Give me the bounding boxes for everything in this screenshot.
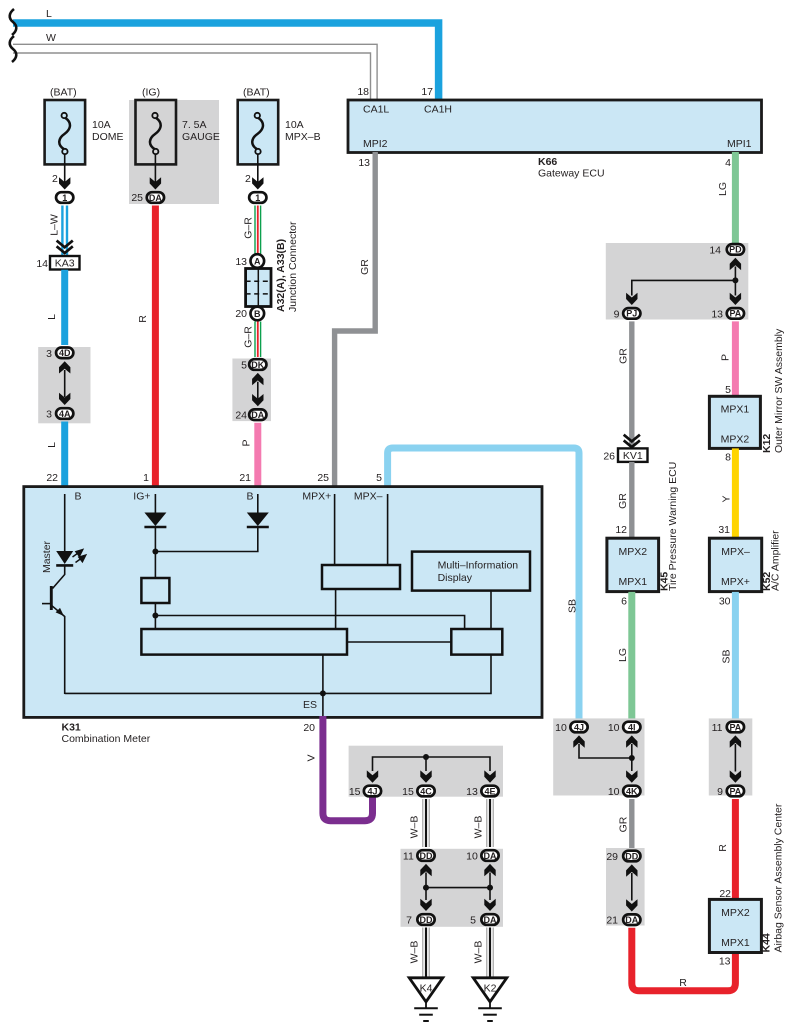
- wire LG K45 pin 6 to 4I: [617, 592, 632, 719]
- arrow pair wire DK-DA: [252, 373, 263, 406]
- svg-text:20: 20: [303, 722, 315, 734]
- connector oval DA pin 5: [470, 914, 498, 926]
- svg-text:PD: PD: [729, 245, 742, 255]
- svg-text:14: 14: [709, 244, 721, 256]
- svg-text:MPX1: MPX1: [619, 576, 648, 588]
- svg-text:P: P: [241, 439, 253, 446]
- label K31 Combination Meter: [62, 722, 151, 746]
- svg-text:13: 13: [711, 308, 723, 320]
- connector oval 1 (MPX-B): [249, 192, 266, 203]
- combination meter K31 box: [24, 487, 542, 718]
- label L: [46, 8, 52, 20]
- svg-text:LG: LG: [717, 182, 729, 196]
- pin 5 label (K31 MPX-): [376, 472, 382, 484]
- cross wire DD-DA: [426, 887, 490, 889]
- svg-text:A32(A), A33(B): A32(A), A33(B): [275, 239, 287, 312]
- svg-text:B: B: [246, 490, 253, 502]
- svg-text:W–B: W–B: [473, 816, 485, 839]
- svg-text:R: R: [679, 977, 687, 989]
- svg-text:MPX–: MPX–: [721, 546, 750, 558]
- svg-text:SB: SB: [721, 649, 733, 663]
- wire L-W (blue/white stripe) oval1 to KA3: [49, 206, 65, 256]
- wire R fuse DA to K31 pin 1: [137, 206, 155, 488]
- svg-text:DOME: DOME: [92, 131, 124, 143]
- svg-text:W–B: W–B: [473, 941, 485, 964]
- svg-text:GR: GR: [618, 348, 630, 364]
- fuse F2 7.5A GAUGE: [136, 87, 220, 165]
- arrow up into PD and branch wire: [632, 258, 741, 296]
- svg-text:P: P: [720, 354, 732, 361]
- wire GR PJ to KV1: [618, 321, 632, 447]
- connector oval DD pin 11: [403, 850, 435, 862]
- svg-text:5: 5: [376, 472, 382, 484]
- svg-text:17: 17: [421, 86, 433, 98]
- svg-text:GAUGE: GAUGE: [182, 131, 220, 143]
- connector oval PD pin 14: [709, 244, 744, 256]
- svg-text:4J: 4J: [367, 786, 377, 796]
- label K66 Gateway ECU: [538, 156, 605, 180]
- squiggle break mark bottom: [10, 36, 17, 62]
- svg-text:30: 30: [719, 596, 731, 608]
- wire V from K31 pin 20 to 4J: [306, 716, 373, 821]
- wire L (blue CAN line from left edge to CA1H): [13, 23, 439, 100]
- svg-text:10A: 10A: [92, 119, 111, 131]
- svg-text:K66: K66: [538, 156, 557, 168]
- svg-text:(BAT): (BAT): [243, 87, 270, 99]
- svg-text:PJ: PJ: [626, 309, 637, 319]
- fuse F3 10A MPX-B: [238, 87, 321, 165]
- connector oval DA pin 21: [606, 914, 640, 926]
- svg-text:MPX–: MPX–: [354, 490, 383, 502]
- connector oval PA pin 11: [712, 722, 744, 734]
- wire Y K12 pin 8 to K52 pin 31: [718, 448, 735, 538]
- ground K4: [409, 978, 443, 1021]
- connector oval 4E pin 13: [466, 786, 499, 798]
- ground K2: [473, 978, 507, 1021]
- svg-text:15: 15: [402, 786, 414, 798]
- pin 18 label: [357, 86, 369, 98]
- junction connector A32(A) A33(B) grid: [246, 269, 271, 307]
- relay block KV1 pin 26: [603, 448, 647, 462]
- svg-text:(BAT): (BAT): [50, 87, 77, 99]
- arrow up into 4J and branch wire: [573, 735, 632, 758]
- wire W-B 4C to DD: [409, 799, 430, 847]
- svg-text:1: 1: [62, 193, 67, 203]
- transistor Q1: [42, 586, 65, 694]
- svg-text:L: L: [46, 314, 58, 320]
- svg-text:4D: 4D: [59, 348, 71, 358]
- wire GR KV1 to K45 pin 12: [615, 462, 631, 538]
- wire W-B 4E to DA: [473, 799, 494, 847]
- shade box PD/PJ/PA: [606, 243, 749, 320]
- svg-text:21: 21: [606, 915, 618, 927]
- pin 13 label K44: [719, 956, 731, 968]
- wire P PA to K12 pin 5: [720, 321, 736, 396]
- svg-text:IG+: IG+: [133, 490, 150, 502]
- A/C amplifier K52 box: [709, 538, 761, 591]
- pin 20 label: [303, 722, 315, 734]
- svg-text:PA: PA: [729, 722, 741, 732]
- svg-text:DA: DA: [251, 410, 264, 420]
- label K52 A/C Amplifier: [761, 530, 782, 591]
- squiggle break mark top: [10, 9, 17, 35]
- svg-text:15: 15: [349, 786, 361, 798]
- double chevron into KA3: [57, 241, 73, 253]
- svg-text:20: 20: [235, 308, 247, 320]
- svg-text:MPI1: MPI1: [727, 138, 752, 150]
- CPU long block: [141, 629, 347, 655]
- label K12 Outer Mirror SW Assembly: [761, 328, 785, 453]
- svg-text:10: 10: [466, 851, 478, 863]
- svg-text:Outer Mirror SW Assembly: Outer Mirror SW Assembly: [773, 328, 785, 453]
- resistor block R1: [141, 552, 169, 630]
- label A32(A), A33(B) Junction Connector: [275, 221, 299, 312]
- wire SB K52 pin 30 to PA: [719, 592, 736, 719]
- svg-text:11: 11: [712, 722, 723, 734]
- shade box 4J/4I/4K: [553, 718, 644, 795]
- svg-text:LG: LG: [617, 648, 629, 662]
- svg-text:5: 5: [241, 360, 247, 372]
- svg-text:R: R: [137, 315, 149, 323]
- wire node to right block: [155, 616, 464, 630]
- wire L 4A to K31 pin 22: [46, 422, 65, 488]
- connector oval PA pin 13: [711, 308, 744, 320]
- svg-text:10A: 10A: [285, 119, 304, 131]
- connector oval DA pin 24: [235, 409, 266, 421]
- shade box behind IG fuse: [129, 100, 219, 204]
- svg-text:DA: DA: [625, 915, 638, 925]
- connector oval 4C pin 15: [402, 786, 435, 798]
- svg-text:SB: SB: [567, 599, 579, 613]
- svg-text:25: 25: [131, 192, 143, 204]
- connector oval 4I pin 10: [608, 722, 641, 734]
- connector oval PJ pin 9: [614, 308, 641, 320]
- svg-text:K12: K12: [761, 434, 773, 453]
- junction connector circle B pin 20: [235, 307, 264, 321]
- svg-text:22: 22: [46, 472, 58, 484]
- arrow up into DD and wire down: [420, 864, 431, 900]
- svg-text:9: 9: [614, 308, 620, 320]
- svg-text:GR: GR: [617, 493, 629, 509]
- arrow down into 4E: [484, 770, 495, 782]
- svg-text:6: 6: [621, 596, 627, 608]
- connector oval DA pin 25: [131, 192, 164, 204]
- svg-text:2: 2: [245, 173, 251, 185]
- svg-text:W–B: W–B: [409, 941, 421, 964]
- arrow down into 4J: [367, 770, 378, 782]
- relay block KA3: [36, 256, 79, 270]
- svg-text:MPX–B: MPX–B: [285, 131, 321, 143]
- fuse F1 10A DOME: [45, 87, 124, 165]
- svg-text:Tire Pressure Warning ECU: Tire Pressure Warning ECU: [667, 462, 679, 591]
- wire G-R oval1 to junction A: [243, 206, 258, 255]
- wire W (white CAN line, double outline, to CA1L): [13, 44, 377, 100]
- shade box 4D/4A: [38, 347, 90, 423]
- svg-text:MPX+: MPX+: [721, 576, 750, 588]
- svg-text:DK: DK: [251, 360, 264, 370]
- connector oval 4A pin 3: [46, 408, 73, 420]
- svg-text:Display: Display: [438, 572, 473, 584]
- svg-text:21: 21: [239, 472, 251, 484]
- svg-text:4E: 4E: [484, 786, 495, 796]
- wire SB from K31 pin 5 (MPX-) to connector 4J: [388, 448, 579, 719]
- svg-text:4C: 4C: [420, 786, 432, 796]
- svg-text:4J: 4J: [574, 722, 584, 732]
- svg-text:31: 31: [718, 524, 730, 536]
- arrow up into 4I and wire down: [626, 735, 637, 771]
- junction connector circle A pin 13: [235, 254, 264, 268]
- arrow down into DD pin 7: [420, 899, 431, 911]
- connector oval DD pin 29: [606, 851, 640, 863]
- connector oval DA pin 10: [466, 850, 499, 862]
- wire R DA to K44 pin 13: [632, 928, 736, 991]
- svg-text:13: 13: [466, 786, 478, 798]
- svg-text:W: W: [46, 32, 56, 44]
- wire GR from K66 MPI2 pin 13 to K31 pin 25: [335, 152, 376, 487]
- connector oval 1 (DOME): [56, 192, 73, 203]
- svg-text:L–W: L–W: [49, 214, 61, 236]
- svg-text:MPI2: MPI2: [363, 138, 388, 150]
- wire LED to transistor collector: [53, 566, 65, 589]
- outer mirror SW K12 box: [709, 396, 760, 448]
- svg-text:PA: PA: [729, 786, 741, 796]
- connector oval 4J pin 10: [555, 722, 588, 734]
- LED Master indicator: [41, 540, 86, 573]
- pin 1 label: [143, 472, 149, 484]
- connector oval 4D pin 3: [46, 348, 73, 361]
- svg-text:8: 8: [725, 452, 731, 464]
- wire GR 4K to DD: [618, 799, 632, 848]
- svg-text:KA3: KA3: [55, 258, 75, 270]
- svg-text:MPX2: MPX2: [721, 907, 750, 919]
- svg-text:MPX1: MPX1: [721, 404, 750, 416]
- arrow up into DA and wire down: [484, 864, 495, 900]
- svg-text:1: 1: [255, 193, 260, 203]
- wire fuse F3 to connector: [245, 154, 264, 190]
- svg-text:B: B: [75, 490, 82, 502]
- wire W-B DA to ground K2: [473, 928, 494, 978]
- svg-text:Junction Connector: Junction Connector: [287, 221, 299, 312]
- svg-text:13: 13: [358, 157, 370, 169]
- label K45 Tire Pressure Warning ECU: [659, 462, 679, 591]
- svg-text:12: 12: [615, 524, 627, 536]
- ECU K66 box: [348, 100, 762, 153]
- svg-text:K2: K2: [484, 983, 497, 995]
- svg-text:A/C Amplifier: A/C Amplifier: [770, 530, 782, 591]
- double chevron into KV1: [624, 435, 640, 447]
- arrow down into 4K: [626, 770, 637, 782]
- svg-text:CA1H: CA1H: [424, 104, 452, 116]
- svg-text:DD: DD: [420, 851, 433, 861]
- svg-text:DA: DA: [484, 851, 497, 861]
- svg-text:G–R: G–R: [243, 217, 255, 239]
- label W: [46, 32, 56, 44]
- arrow down into PJ: [626, 293, 637, 305]
- right interface block: [451, 629, 502, 655]
- node dot 4I branch: [629, 755, 635, 761]
- internal ground bus wire: [65, 655, 491, 694]
- wire CPU to right block: [347, 641, 451, 643]
- svg-text:7: 7: [406, 915, 412, 927]
- svg-text:L: L: [46, 442, 58, 448]
- arrow pair wire DD-DA right: [626, 864, 637, 911]
- node dot DD cross: [423, 885, 429, 891]
- svg-text:MPX+: MPX+: [302, 490, 331, 502]
- svg-text:10: 10: [608, 786, 620, 798]
- svg-text:3: 3: [46, 348, 52, 360]
- svg-text:K31: K31: [62, 722, 81, 734]
- wire L KA3 to 4D: [46, 270, 65, 345]
- connector oval 4J pin 15: [349, 786, 381, 798]
- svg-text:K4: K4: [420, 983, 433, 995]
- node dot PD branch: [732, 277, 738, 283]
- branch wire 4J/4C/4E: [373, 757, 491, 771]
- diode D2 (B): [155, 494, 268, 552]
- svg-text:Combination Meter: Combination Meter: [62, 733, 151, 745]
- svg-text:29: 29: [606, 851, 618, 863]
- svg-text:Y: Y: [721, 495, 733, 502]
- svg-text:4: 4: [725, 157, 731, 169]
- wire fuse F2 to connector: [150, 154, 161, 190]
- node dot DA cross: [487, 885, 493, 891]
- svg-text:G–R: G–R: [243, 326, 255, 348]
- svg-text:24: 24: [235, 410, 247, 422]
- arrow pair wire PA-PA: [730, 735, 741, 782]
- pin 21 label: [239, 472, 251, 484]
- svg-text:MPX2: MPX2: [721, 434, 750, 446]
- shade box DD/DA pairs: [401, 849, 504, 927]
- svg-text:ES: ES: [303, 699, 317, 711]
- pin 25 label: [317, 472, 329, 484]
- svg-text:B: B: [254, 309, 261, 319]
- Multi-Information Display block: [412, 552, 530, 629]
- svg-text:10: 10: [608, 722, 620, 734]
- svg-text:14: 14: [36, 258, 48, 270]
- svg-text:Master: Master: [41, 540, 53, 573]
- wire R PA to K44 pin 22: [717, 799, 735, 900]
- svg-text:5: 5: [470, 915, 476, 927]
- svg-text:DA: DA: [484, 915, 497, 925]
- node dot 4C branch: [423, 754, 429, 760]
- svg-text:11: 11: [403, 851, 414, 863]
- svg-text:DD: DD: [625, 851, 638, 861]
- svg-text:7. 5A: 7. 5A: [182, 119, 207, 131]
- connector oval DD pin 7: [406, 914, 434, 926]
- node ES junction dot: [320, 690, 326, 696]
- svg-text:Multi–Information: Multi–Information: [438, 560, 519, 572]
- MPX transceiver block: [322, 494, 400, 629]
- svg-text:2: 2: [52, 173, 58, 185]
- svg-text:Gateway ECU: Gateway ECU: [538, 168, 605, 180]
- svg-text:10: 10: [555, 722, 567, 734]
- svg-text:(IG): (IG): [142, 87, 160, 99]
- label K44 Airbag Sensor Assembly Center: [761, 803, 785, 952]
- diode D1 (IG+): [144, 494, 166, 552]
- svg-text:5: 5: [725, 384, 731, 396]
- svg-text:MPX1: MPX1: [721, 937, 750, 949]
- wire W-B DD to ground K4: [409, 928, 430, 978]
- pin 17 label: [421, 86, 433, 98]
- svg-text:L: L: [46, 8, 52, 20]
- svg-text:4K: 4K: [626, 786, 638, 796]
- svg-text:GR: GR: [618, 816, 630, 832]
- svg-text:26: 26: [603, 451, 615, 463]
- svg-text:18: 18: [357, 86, 369, 98]
- svg-text:Airbag Sensor Assembly Center: Airbag Sensor Assembly Center: [773, 803, 785, 952]
- pin 22 label: [46, 472, 58, 484]
- svg-text:1: 1: [143, 472, 149, 484]
- shade box DK/DA: [232, 359, 271, 422]
- node junction dot below resistor: [152, 613, 158, 619]
- svg-text:W–B: W–B: [409, 816, 421, 839]
- airbag sensor K44 box: [709, 899, 761, 952]
- arrow down into PA: [730, 293, 741, 305]
- svg-text:A: A: [254, 256, 261, 266]
- shade box PA/PA right: [709, 718, 753, 795]
- wire P DA to K31 pin 21: [241, 423, 258, 487]
- svg-text:CA1L: CA1L: [363, 104, 389, 116]
- connector oval DK pin 5: [241, 359, 266, 371]
- arrow down into 4C: [420, 770, 431, 782]
- svg-text:13: 13: [719, 956, 731, 968]
- svg-text:KV1: KV1: [623, 450, 643, 462]
- svg-text:9: 9: [717, 786, 723, 798]
- svg-text:GR: GR: [359, 259, 371, 275]
- connector oval PA pin 9: [717, 786, 744, 798]
- ES pin wire: [303, 693, 323, 716]
- svg-text:4A: 4A: [59, 409, 71, 419]
- tire pressure warning ECU K45 box: [607, 538, 659, 591]
- wire fuse F1 to connector: [52, 154, 70, 190]
- svg-text:25: 25: [317, 472, 329, 484]
- svg-text:V: V: [306, 754, 318, 761]
- wire LG from K66 MPI1 pin 4 to PD: [717, 152, 735, 243]
- svg-text:PA: PA: [729, 309, 741, 319]
- svg-text:4I: 4I: [628, 722, 636, 732]
- svg-text:R: R: [717, 844, 729, 852]
- svg-text:MPX2: MPX2: [619, 546, 648, 558]
- svg-text:K44: K44: [761, 933, 773, 952]
- svg-text:DD: DD: [420, 915, 433, 925]
- arrow pair wire 4D-4A: [59, 361, 70, 405]
- wire pin22 to LED: [64, 494, 66, 552]
- svg-text:DA: DA: [149, 193, 162, 203]
- shade box DD/DA right: [606, 848, 645, 926]
- shade box 4J/4C/4E: [349, 746, 503, 797]
- arrow down into DA pin 5: [484, 899, 495, 911]
- svg-text:13: 13: [235, 256, 247, 268]
- node junction dot IG+/B: [152, 549, 158, 555]
- connector oval 4K pin 10: [608, 786, 641, 798]
- svg-text:3: 3: [46, 409, 52, 421]
- wire G-R junction B to DK: [243, 322, 258, 358]
